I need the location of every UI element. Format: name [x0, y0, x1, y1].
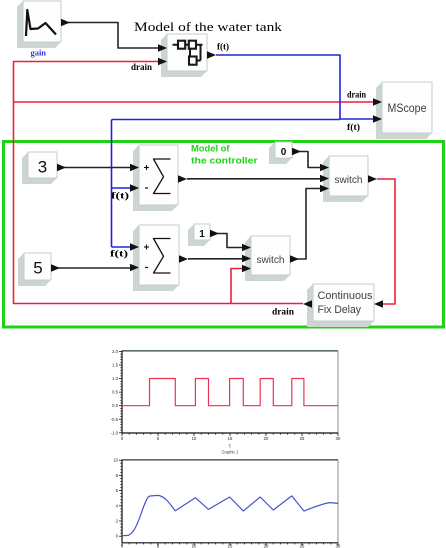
- svg-text:f(t): f(t): [347, 122, 360, 132]
- svg-text:Continuous: Continuous: [318, 290, 373, 302]
- svg-text:2.0: 2.0: [112, 349, 118, 354]
- svg-text:switch: switch: [257, 254, 285, 266]
- svg-text:0.0: 0.0: [112, 403, 118, 408]
- svg-text:-0.5: -0.5: [111, 417, 119, 422]
- svg-text:1.5: 1.5: [112, 363, 118, 368]
- svg-text:MScope: MScope: [388, 103, 427, 115]
- svg-text:f(t): f(t): [111, 191, 129, 202]
- svg-text:Fix Delay: Fix Delay: [318, 304, 362, 316]
- svg-text:drain: drain: [131, 62, 152, 72]
- svg-text:25: 25: [300, 436, 305, 441]
- svg-text:Model of: Model of: [191, 144, 231, 154]
- svg-text:1: 1: [199, 229, 205, 240]
- svg-text:0: 0: [281, 147, 287, 158]
- svg-text:drain: drain: [272, 308, 295, 318]
- svg-text:20: 20: [264, 544, 269, 548]
- svg-text:10: 10: [113, 458, 118, 463]
- svg-text:10: 10: [192, 544, 197, 548]
- svg-text:the controller: the controller: [191, 156, 258, 166]
- svg-text:drain: drain: [347, 90, 366, 100]
- svg-text:15: 15: [228, 544, 233, 548]
- svg-text:0.5: 0.5: [112, 390, 118, 395]
- svg-text:1.0: 1.0: [112, 376, 118, 381]
- svg-text:f(t): f(t): [217, 42, 229, 52]
- svg-text:-1.0: -1.0: [111, 430, 119, 435]
- svg-text:10: 10: [192, 436, 197, 441]
- svg-text:30: 30: [336, 436, 341, 441]
- svg-text:3: 3: [38, 158, 47, 177]
- svg-text:15: 15: [228, 436, 233, 441]
- svg-text:Model of the water tank: Model of the water tank: [134, 20, 283, 34]
- svg-text:f(t): f(t): [110, 249, 128, 260]
- svg-text:switch: switch: [335, 174, 363, 186]
- svg-text:20: 20: [264, 436, 269, 441]
- svg-text:5: 5: [33, 259, 42, 278]
- svg-text:30: 30: [336, 544, 341, 548]
- svg-text:25: 25: [300, 544, 305, 548]
- svg-text:Graphic 2: Graphic 2: [222, 450, 240, 455]
- svg-text:gain: gain: [31, 48, 47, 58]
